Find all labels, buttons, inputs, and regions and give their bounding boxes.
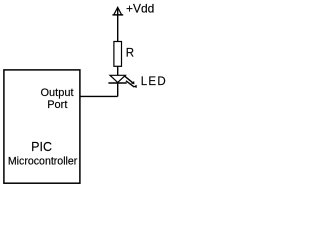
svg-text:+Vdd: +Vdd <box>126 2 154 16</box>
svg-text:Output: Output <box>40 87 73 99</box>
wire resistor to LED <box>117 66 119 75</box>
LED emission arrow 2 <box>126 81 137 88</box>
svg-text:Microcontroller: Microcontroller <box>8 155 78 167</box>
svg-text:Port: Port <box>47 99 67 111</box>
PIC microcontroller U1 box <box>4 70 80 183</box>
resistor R <box>114 42 122 67</box>
wire Vdd to resistor <box>117 8 119 41</box>
LED cathode bar <box>108 82 126 84</box>
+Vdd arrowhead base bar <box>112 14 123 16</box>
+Vdd power symbol arrowhead <box>114 7 122 15</box>
svg-text:R: R <box>126 48 134 60</box>
wire LED to node <box>117 83 119 96</box>
LED D1 triangle anode <box>110 75 125 82</box>
wire node to output port <box>80 95 118 97</box>
svg-text:PIC: PIC <box>31 140 52 154</box>
svg-text:LED: LED <box>141 76 167 88</box>
LED emission arrow 1 <box>125 76 134 84</box>
